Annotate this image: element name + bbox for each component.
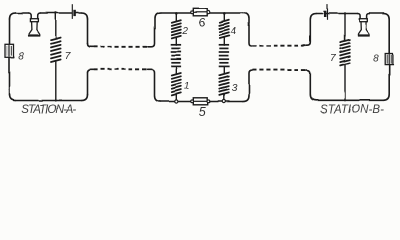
wire condenser-to-coil3 <box>223 67 225 73</box>
condenser box 8 (station A) <box>5 44 14 57</box>
label 4 <box>230 26 236 37</box>
battery (station A) <box>72 4 74 19</box>
middle bottom wire <box>161 101 244 103</box>
receiver (station B) <box>357 14 369 36</box>
retardation box 6 <box>191 9 211 16</box>
station A enclosure wire (rounded loop, left/top/bottom + right brackets) <box>10 13 94 101</box>
svg-text:STATION-A-: STATION-A- <box>21 104 77 116</box>
svg-text:8: 8 <box>18 51 24 62</box>
middle frame top-right bracket wire <box>243 13 252 46</box>
label 6 <box>199 15 206 29</box>
loading coil 4 <box>220 20 229 38</box>
label 7 (station B) <box>330 52 337 64</box>
svg-text:8: 8 <box>373 53 379 64</box>
loading coil 2 <box>172 20 181 38</box>
middle frame top-left bracket wire <box>148 13 161 47</box>
wire left-branch lower stub <box>175 95 177 100</box>
svg-text:4: 4 <box>230 26 236 37</box>
receiver (station A) <box>29 13 41 36</box>
wire right-branch lower stub <box>223 95 225 100</box>
middle frame bottom-left bracket wire <box>148 69 161 101</box>
label STATION-B- <box>320 104 385 116</box>
label 5 <box>199 105 206 119</box>
svg-text:1: 1 <box>184 81 190 92</box>
svg-text:3: 3 <box>232 82 238 94</box>
induction coil 7 (station A) <box>51 12 61 102</box>
lower line wire A-to-middle (dashed) <box>94 68 148 70</box>
wire coil4-to-condenser <box>223 38 225 46</box>
loading coil 3 <box>220 73 229 96</box>
svg-text:5: 5 <box>199 105 206 119</box>
label 1 <box>184 81 190 92</box>
wire right-branch upper stub <box>223 13 225 20</box>
label 8 (station B) <box>373 53 379 64</box>
battery (station B) <box>325 5 327 20</box>
station B enclosure wire <box>306 14 389 101</box>
wire left-branch upper stub <box>175 13 177 21</box>
middle frame bottom-right bracket wire <box>243 70 252 101</box>
middle top wire <box>161 12 244 14</box>
condenser (right branch plates) <box>219 45 229 67</box>
retardation box 5 <box>191 98 211 105</box>
label 3 <box>232 82 238 94</box>
condenser (left branch plates) <box>171 45 181 67</box>
lower line wire middle-to-B (dashed) <box>252 69 306 71</box>
node right-branch/bottom (junction circle) <box>223 100 226 103</box>
node left-branch/top (junction) <box>175 12 178 15</box>
label 7 (station A) <box>65 50 72 62</box>
loading coil 1 <box>172 73 181 95</box>
wire coil2-to-condenser <box>175 38 177 45</box>
svg-text:2: 2 <box>181 26 188 37</box>
label 2 <box>181 26 188 37</box>
node left-branch/bottom (junction circle) <box>175 100 178 103</box>
upper line wire middle-to-B (dashed) <box>252 45 306 47</box>
upper line wire A-to-middle (dashed) <box>94 46 148 48</box>
label 8 (station A) <box>18 51 24 62</box>
wire condenser-to-coil1 <box>175 67 177 74</box>
condenser box 8 (station B) <box>385 54 393 65</box>
induction coil 7 (station B) <box>340 12 350 101</box>
svg-text:STATION-B-: STATION-B- <box>320 104 385 116</box>
label STATION-A- <box>21 104 77 116</box>
svg-text:6: 6 <box>199 15 206 29</box>
node right-branch/top (junction) <box>223 12 226 15</box>
